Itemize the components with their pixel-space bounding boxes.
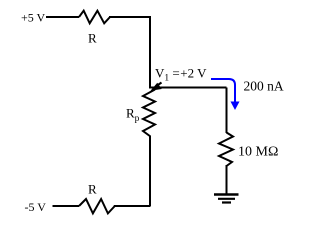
wire from Rp down to bottom corner — [149, 136, 151, 206]
wire from 10M resistor to ground — [226, 165, 228, 194]
svg-text:+5 V: +5 V — [21, 10, 46, 24]
wire from R bottom to left vertical corner — [114, 205, 151, 207]
wire from +5V to R1 — [46, 16, 79, 18]
node V1 wiper arrow of potentiometer — [157, 83, 162, 87]
wire from node to right branch — [149, 87, 227, 89]
resistor 10 MOhm zigzag — [219, 133, 233, 167]
wire from -5V to R bottom — [53, 205, 80, 207]
wire down right branch to 10M resistor — [226, 88, 228, 134]
ground symbol — [214, 193, 239, 195]
svg-text:10 MΩ: 10 MΩ — [238, 145, 278, 160]
blue current arrow 200 nA — [211, 79, 235, 102]
svg-text:R: R — [88, 31, 97, 46]
resistor R (bottom) — [79, 199, 115, 213]
svg-text:R: R — [88, 182, 97, 197]
resistor R (top) — [79, 11, 110, 24]
svg-text:200 nA: 200 nA — [244, 79, 284, 94]
potentiometer Rp zigzag — [143, 90, 155, 137]
wire from R top to corner and down to node — [109, 17, 150, 88]
svg-text:-5 V: -5 V — [25, 200, 47, 214]
